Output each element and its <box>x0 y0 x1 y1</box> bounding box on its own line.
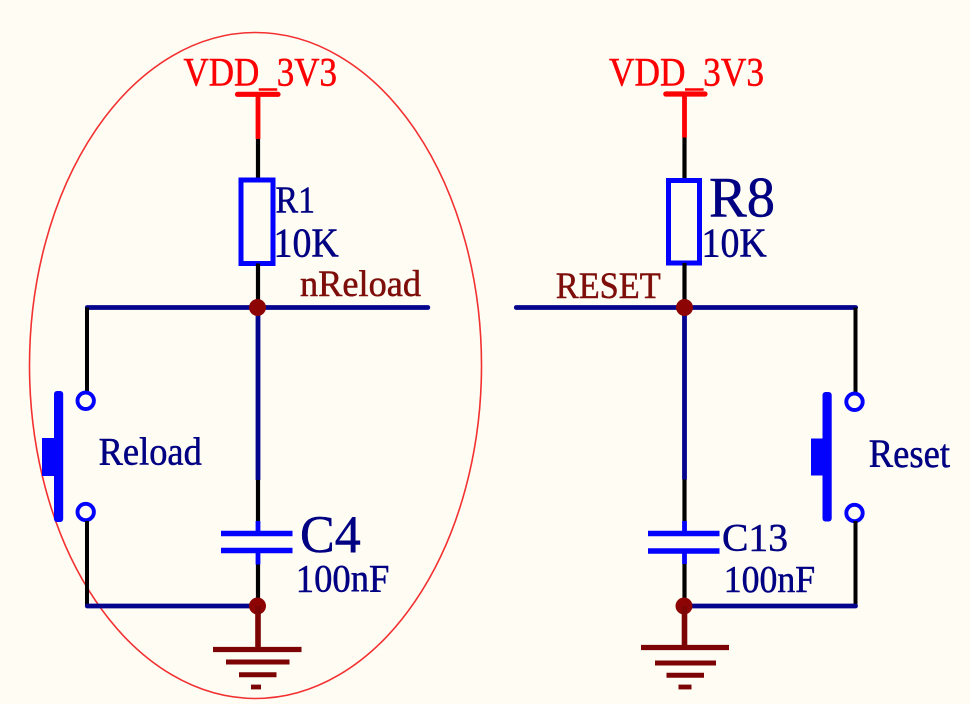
pin: C4 bottom pin blue tip <box>256 553 261 565</box>
pin: C13 top pin blue tip <box>682 521 687 532</box>
wire: left vertical to button top pin (black) <box>85 308 89 393</box>
junction node GND (right) <box>676 598 693 615</box>
push button S1 bottom terminal circle <box>78 504 94 520</box>
push button S2 top terminal circle <box>846 394 862 410</box>
junction node GND (left) <box>249 598 266 615</box>
ground bar 1 (right) <box>641 645 729 650</box>
wire: vertical net from junction to C13 <box>682 308 687 480</box>
svg-text:100nF: 100nF <box>296 558 390 601</box>
junction node RESET <box>676 299 693 316</box>
ground bar 4 (right) <box>679 685 692 690</box>
ground bar 2 (right) <box>655 661 716 666</box>
push button S1 actuator <box>42 438 60 476</box>
ground bar 3 (left) <box>239 672 277 677</box>
capacitor C13 bottom plate <box>648 548 720 553</box>
svg-text:10K: 10K <box>702 220 768 266</box>
pin: C4 bottom pin black segment <box>256 565 260 601</box>
ground bar 3 (right) <box>667 673 705 678</box>
power symbol VDD bar (right) <box>666 91 705 96</box>
push button S2 actuator <box>811 439 829 476</box>
svg-text:R1: R1 <box>276 180 316 222</box>
svg-text:VDD_3V3: VDD_3V3 <box>184 50 338 95</box>
wire: R1 bottom pin (black) <box>256 264 260 303</box>
wire: button bottom pin down (black) <box>85 521 89 606</box>
resistor R1 body <box>241 180 273 264</box>
ground stem (left) <box>255 606 261 648</box>
power symbol VDD bar (left) <box>238 92 279 97</box>
wire: nReload horizontal net <box>87 305 428 310</box>
ground bar 1 (left) <box>213 647 302 652</box>
ground stem (right) <box>682 606 688 646</box>
wire: VDD to R8 pin (right, black) <box>682 138 686 181</box>
push button S2 bar <box>823 392 832 522</box>
pin: C13 top pin black segment <box>682 480 686 522</box>
power symbol stem (right) <box>682 95 687 138</box>
wire: bottom horizontal net to junction (navy) <box>87 604 257 609</box>
svg-text:10K: 10K <box>274 220 340 266</box>
svg-text:100nF: 100nF <box>724 559 816 601</box>
push button S2 bottom terminal circle <box>846 505 862 521</box>
ground bar 4 (left) <box>251 685 261 690</box>
wire: vertical net from junction to C4 <box>256 308 261 481</box>
svg-text:Reset: Reset <box>869 431 951 476</box>
capacitor C13 top plate <box>648 531 720 536</box>
junction node nReload <box>249 299 266 316</box>
wire: R8 bottom pin (black) <box>682 263 686 302</box>
highlight ellipse around left circuit <box>30 33 482 699</box>
capacitor C4 bottom plate <box>221 548 293 553</box>
wire: bottom horizontal net to junction (right, navy) <box>684 604 856 609</box>
push button S1 top terminal circle <box>78 393 94 409</box>
ground bar 2 (left) <box>226 660 290 665</box>
pin: C4 top pin black segment <box>256 480 260 521</box>
resistor R8 body <box>669 181 700 264</box>
wire: right vertical to button top pin (black) <box>854 308 858 394</box>
svg-text:nReload: nReload <box>300 263 421 304</box>
svg-text:RESET: RESET <box>556 265 661 306</box>
push button S1 bar <box>54 391 63 522</box>
pin: C4 top pin blue tip <box>256 521 261 532</box>
wire: VDD to R1 pin (left, black) <box>256 139 260 180</box>
capacitor C4 top plate <box>221 531 293 536</box>
wire: button bottom pin down (right, black) <box>854 521 858 606</box>
svg-text:VDD_3V3: VDD_3V3 <box>609 50 764 95</box>
svg-text:C13: C13 <box>722 517 788 560</box>
svg-text:Reload: Reload <box>99 431 203 474</box>
power symbol stem (left) <box>256 95 261 140</box>
svg-text:C4: C4 <box>300 506 361 564</box>
pin: C13 bottom pin black segment <box>682 564 686 600</box>
wire: RESET horizontal net <box>516 305 855 310</box>
pin: C13 bottom pin blue tip <box>682 554 687 565</box>
